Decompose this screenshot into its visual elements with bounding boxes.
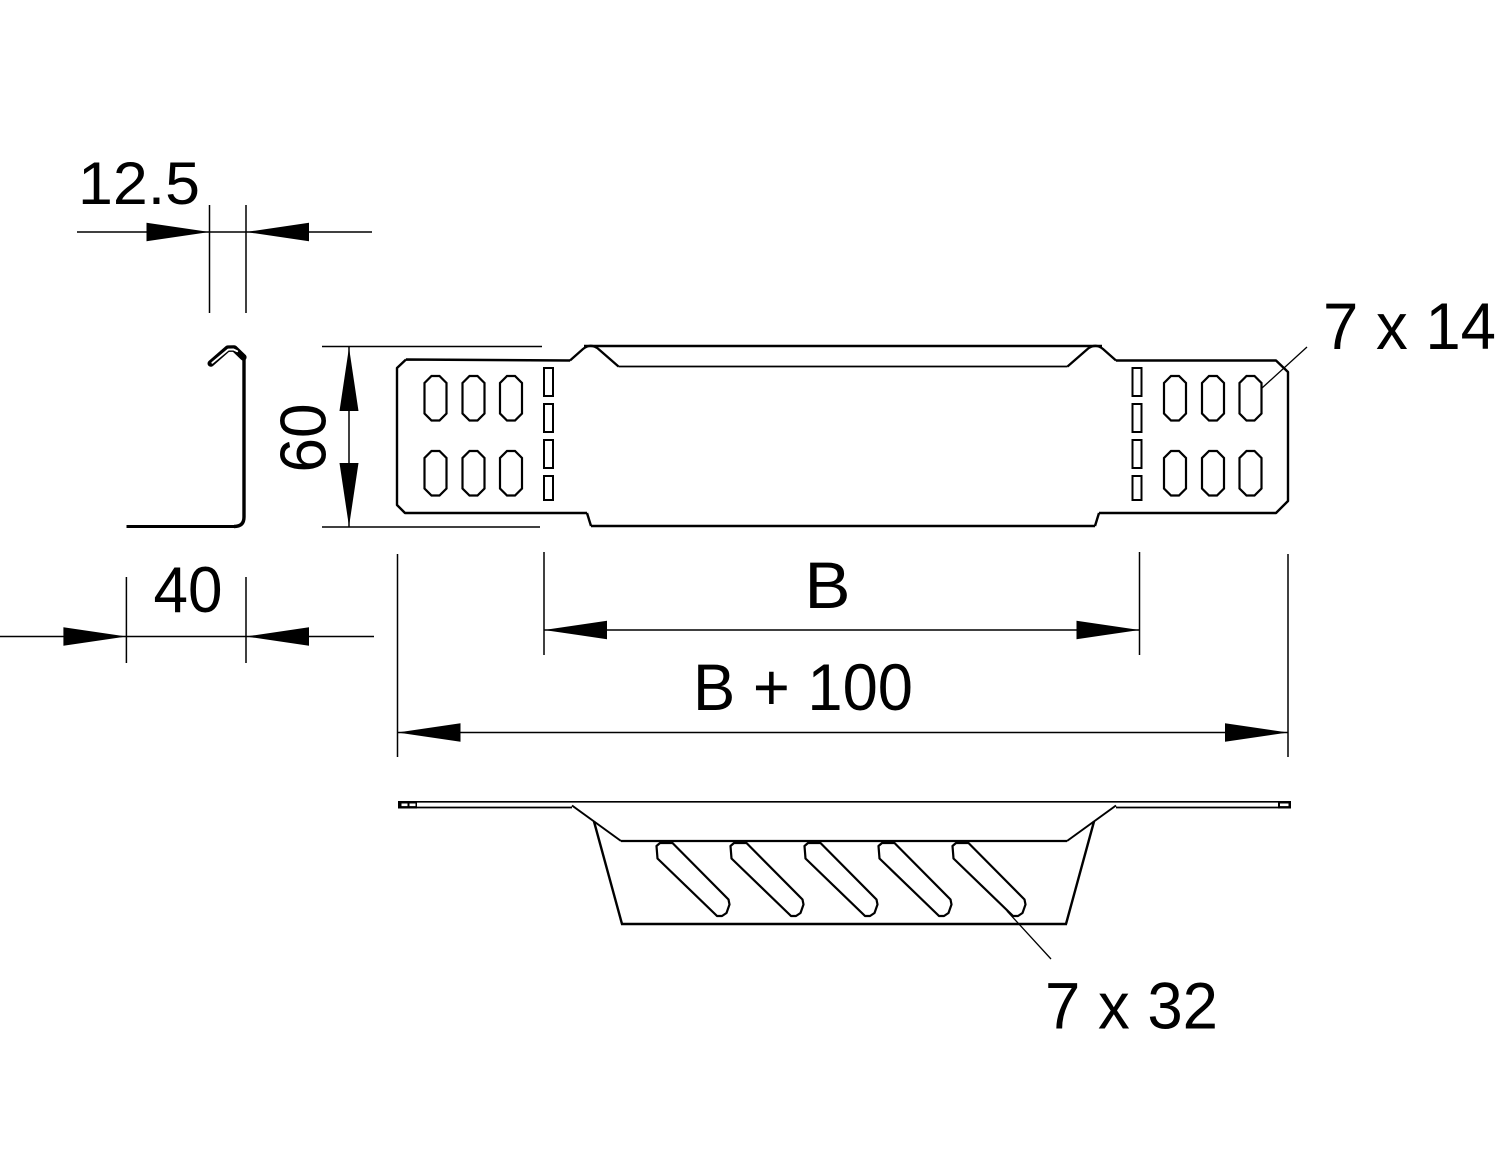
- top view: left tab slot row1 col1: [425, 376, 447, 421]
- dimension 12.5 arrow left: [147, 223, 210, 241]
- dimension 40 arrow right: [246, 627, 309, 645]
- dimension 12.5 line: [77, 231, 372, 233]
- dimension 12.5 extension line right: [245, 205, 247, 313]
- dimension 40 line: [0, 636, 374, 638]
- dimension B+100 arrow left: [398, 723, 461, 741]
- top view: left fold dash 1: [544, 368, 553, 396]
- dimension 40 arrow left: [63, 627, 126, 645]
- front view: trough inner fold line: [621, 840, 1067, 842]
- front view: trough left wall: [594, 822, 622, 925]
- top view: right fold dash 3: [1133, 440, 1142, 468]
- side profile hook slit: [212, 349, 237, 362]
- top view: right fold dash 1: [1133, 368, 1142, 396]
- top view: right transition bump: [1068, 346, 1117, 367]
- top view: left tab slot row1 col3: [500, 376, 522, 421]
- dimension 40 extension line left: [125, 577, 127, 663]
- dimension 12.5 text: [78, 150, 200, 217]
- top view: right tab slot row2 col3: [1240, 451, 1262, 496]
- dimension B arrow right: [1077, 621, 1140, 639]
- dimension B+100 line: [398, 732, 1289, 734]
- top view: body outer top edge: [584, 345, 1102, 348]
- front view: angled slot 3: [805, 843, 878, 916]
- top view: left tab slot row1 col2: [463, 376, 485, 421]
- top view: left tab outline: [397, 360, 587, 514]
- dimension 40 text: [154, 553, 223, 626]
- top view: body bottom edge: [591, 525, 1095, 528]
- side profile hook band: [211, 349, 244, 364]
- dimension B+100 arrow right: [1225, 723, 1288, 741]
- top view: right tab outline: [1099, 361, 1288, 514]
- dimension B+100 text: [693, 650, 913, 724]
- front view: top plate lower line left: [398, 807, 572, 809]
- top view: right tab slot row2 col1: [1164, 451, 1186, 496]
- front view: angled slot 5: [953, 843, 1026, 916]
- dimension 60 extension bottom: [322, 526, 540, 528]
- top view: right fold dash 4: [1133, 476, 1142, 500]
- dimension 12.5 extension line left: [209, 205, 211, 313]
- label 7x32 text: [1045, 969, 1218, 1043]
- front view: angled slot 4: [879, 843, 952, 916]
- svg-text:7 x 14: 7 x 14: [1323, 289, 1496, 363]
- label 7x14 leader line: [1262, 347, 1307, 388]
- front view: right plate end cap: [1278, 801, 1291, 809]
- dimension B extension right: [1139, 552, 1141, 655]
- top view: right tab slot row2 col2: [1202, 451, 1224, 496]
- side profile vertical web: [234, 355, 244, 527]
- top view: right tab slot row1 col3: [1240, 376, 1262, 421]
- front view: top plate lower line right: [1116, 807, 1290, 809]
- front view: right bend diagonal: [1067, 806, 1116, 842]
- dimension B extension left: [543, 552, 545, 655]
- side profile bottom flange: [127, 525, 236, 528]
- label 7x32 leader line: [1007, 911, 1051, 959]
- top view: body fold line: [619, 366, 1068, 368]
- top view: right bottom jog: [1095, 513, 1099, 526]
- svg-text:12.5: 12.5: [78, 150, 200, 217]
- top view: left transition bump: [570, 346, 619, 367]
- svg-text:60: 60: [267, 404, 340, 473]
- dimension 60 text: [267, 404, 340, 473]
- top view: left fold dash 2: [544, 404, 553, 432]
- svg-text:B + 100: B + 100: [693, 650, 913, 724]
- dimension 60 arrow up: [340, 348, 359, 412]
- top view: right tab slot row1 col1: [1164, 376, 1186, 421]
- svg-text:40: 40: [154, 553, 223, 626]
- svg-text:7 x 32: 7 x 32: [1045, 969, 1218, 1043]
- front view: angled slot 1: [657, 843, 730, 916]
- top view: right tab slot row1 col2: [1202, 376, 1224, 421]
- label 7x14 text: [1323, 289, 1496, 363]
- top view: left tab slot row2 col3: [500, 451, 522, 496]
- dimension 60 line: [348, 347, 350, 527]
- dimension B text: [805, 548, 851, 622]
- top view: left tab slot row2 col2: [463, 451, 485, 496]
- svg-text:B: B: [805, 548, 851, 622]
- dimension B line: [544, 629, 1140, 631]
- front view: trough right wall: [1066, 822, 1094, 925]
- dimension 60 extension top: [322, 346, 542, 348]
- top view: right fold dash 2: [1133, 404, 1142, 432]
- top view: left bottom jog: [587, 513, 591, 526]
- dimension 12.5 arrow right: [246, 223, 309, 241]
- front view: left plate end cap: [398, 801, 417, 809]
- front view: left bend diagonal: [572, 806, 621, 842]
- top view: left fold dash 3: [544, 440, 553, 468]
- dimension B+100 extension left: [397, 554, 399, 757]
- dimension 40 extension line right: [245, 577, 247, 663]
- front view: top plate upper line: [398, 801, 1290, 803]
- dimension B arrow left: [544, 621, 607, 639]
- top view: left tab slot row2 col1: [425, 451, 447, 496]
- dimension 60 arrow down: [340, 463, 359, 527]
- front view: trough bottom edge: [621, 923, 1067, 925]
- top view: left fold dash 4: [544, 476, 553, 500]
- dimension B+100 extension right: [1287, 554, 1289, 757]
- front view: angled slot 2: [731, 843, 804, 916]
